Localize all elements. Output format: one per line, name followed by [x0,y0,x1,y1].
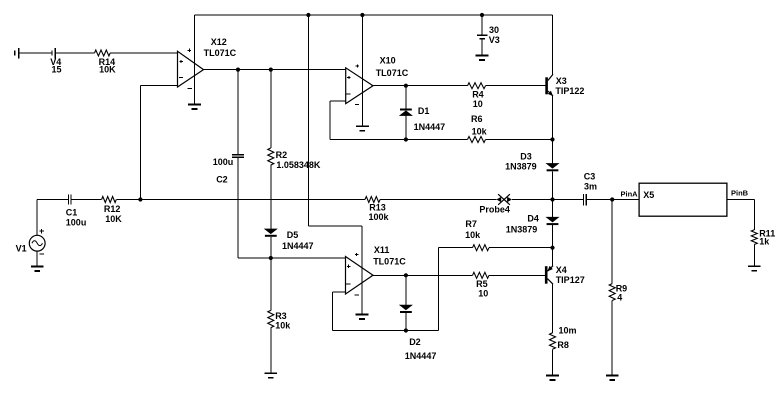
wire V1 top lead [36,200,38,236]
svg-text:R13: R13 [369,202,386,212]
probe Probe4 [496,194,512,205]
svg-text:1N4447: 1N4447 [282,241,314,251]
op-amp X12 [178,49,204,89]
svg-text:100k: 100k [369,212,390,222]
ground X10 [356,126,369,131]
wire D4 to R7 node [552,225,554,266]
resistor R12 [102,197,117,203]
wire C2 lower lead [237,158,239,258]
wire D2 top lead [405,275,407,305]
svg-text:V3: V3 [489,35,500,45]
wire PinA to X5 [612,199,639,201]
svg-text:D2: D2 [409,337,421,347]
svg-text:TL071C: TL071C [204,48,237,58]
ground X11 [356,315,369,320]
wire output node to C3 [553,199,583,201]
wire X12 output [204,69,346,71]
svg-text:4: 4 [617,293,622,303]
node PinA [610,197,614,201]
wire X11 feedback left [332,292,334,331]
wire D5 to node [270,237,272,258]
svg-text:1.058348K: 1.058348K [276,160,321,170]
node R2 top [269,68,273,72]
svg-text:10K: 10K [99,65,116,75]
ground R9 [606,376,619,381]
source V1 [29,229,45,254]
node D5 R3 [269,256,273,260]
wire X11 -in [333,291,346,293]
wire R14 to X12 +in [110,52,177,54]
ground X12 [188,105,201,110]
wire X3 collector [552,15,554,75]
ground R11 [748,266,761,271]
diode D5 [265,229,277,237]
wire X3 emitter [552,96,554,164]
wire V4 cells [19,52,52,54]
svg-text:30: 30 [489,25,499,35]
svg-text:X12: X12 [211,37,227,47]
battery V4 [15,48,56,59]
svg-text:R6: R6 [471,114,483,124]
node feedback tap [138,197,142,201]
resistor R2 [268,148,274,165]
wire C3 to PinA node [587,199,612,201]
wire X10 feedback bottom [330,139,468,141]
wire PinB [727,199,754,201]
wire X11 V+ lead [361,226,363,315]
node top rail C [480,13,484,17]
svg-text:1N4447: 1N4447 [405,351,437,361]
wire X10 out [372,85,468,87]
svg-text:15: 15 [52,65,62,75]
svg-text:R5: R5 [476,279,488,289]
svg-text:TIP122: TIP122 [555,86,584,96]
node X3 emitter R6 [550,137,554,141]
wire X10 V+ lead [361,15,363,126]
svg-text:X11: X11 [374,245,390,255]
wire X10 -in [330,100,346,102]
svg-text:100u: 100u [66,217,87,227]
svg-text:D4: D4 [527,213,539,223]
resistor R5 [473,272,490,278]
wire PinB down [753,200,755,230]
wire X11 feedback bottom [333,330,439,332]
resistor R13 [365,197,380,203]
svg-text:10m: 10m [559,326,577,336]
wire D1 top lead [405,86,407,109]
svg-text:10k: 10k [465,230,481,240]
wire V1 bottom lead [36,251,38,266]
resistor R9 [609,284,615,301]
svg-text:Probe4: Probe4 [479,204,510,214]
svg-text:X3: X3 [556,76,567,86]
resistor R14 [95,50,111,56]
op-amp X10 [346,64,373,104]
svg-text:X5: X5 [643,190,654,200]
ground R8 [546,376,559,381]
svg-text:10k: 10k [472,127,488,137]
wire V+ feed vertical [307,15,309,226]
svg-text:X4: X4 [556,265,567,275]
svg-text:10k: 10k [275,321,291,331]
svg-text:R12: R12 [104,204,121,214]
wire V+ feed jog [308,225,362,227]
resistor R7 [473,245,490,251]
svg-text:R8: R8 [557,340,569,350]
resistor R3 [268,310,274,327]
node D1 anode [404,137,408,141]
wire R8 to ground [552,349,554,375]
resistor R11 [751,230,757,245]
ground V1 [31,266,44,271]
svg-text:X10: X10 [380,55,396,65]
node top rail A [306,13,310,17]
svg-text:C3: C3 [584,172,596,182]
wire R7 to D4 node [489,247,553,249]
subcircuit X5 [639,183,727,216]
wire R3 to ground [270,328,272,374]
svg-text:PinA: PinA [621,189,639,198]
wire R5 to X4 base [489,274,545,276]
diode D4 [547,217,559,225]
wire R13 to probe [380,199,497,201]
capacitor C2 [232,155,244,157]
svg-text:PinB: PinB [731,189,749,198]
wire D3 to output node [552,171,554,217]
wire X4 collector down [552,284,554,333]
wire R2 to D5 [270,165,272,229]
wire V4 to R14 [55,52,94,54]
wire C2 upper lead [237,70,239,155]
wire probe to output node [512,199,553,201]
node top rail B [360,13,364,17]
node D1 cathode top [404,84,408,88]
svg-text:TL071C: TL071C [373,257,406,267]
node D2 cathode [404,328,408,332]
wire X11 out [372,274,473,276]
capacitor C1 [68,194,71,204]
wire X11 +in [238,257,346,259]
wire D2 bottom lead [405,313,407,331]
wire C1 to R12 [72,199,102,201]
resistor R6 [468,137,486,143]
node C2 top [236,68,240,72]
svg-text:R7: R7 [465,219,477,229]
svg-text:TIP127: TIP127 [556,275,585,285]
svg-text:10: 10 [473,99,483,109]
svg-text:D5: D5 [287,230,299,240]
wire top supply rail [195,14,553,16]
wire feedback right vertical [438,248,440,331]
svg-text:C1: C1 [66,208,78,218]
svg-text:D1: D1 [418,106,430,116]
wire R11 to ground [753,245,755,267]
wire R9 to ground [611,301,613,376]
wire R3 top lead [270,258,272,310]
svg-text:1N3879: 1N3879 [505,161,537,171]
wire R2 top lead [270,70,272,148]
wire R9 top lead [611,200,613,284]
wire R4 to X3 base [486,85,546,87]
capacitor C3 [583,194,586,205]
wire R7 line [439,247,473,249]
svg-text:1N3879: 1N3879 [506,225,538,235]
ground R3 [264,373,277,378]
node output [550,197,554,201]
resistor R8 [550,333,556,350]
svg-text:D3: D3 [520,152,532,162]
wire X12 -in [140,84,177,86]
wire D1 bottom lead [405,116,407,140]
svg-text:TL071C: TL071C [376,68,409,78]
svg-text:1k: 1k [759,237,770,247]
ground V3 [476,56,489,61]
transistor X4 [545,266,553,285]
diode D2 [400,305,412,313]
svg-text:1N4447: 1N4447 [414,122,446,132]
svg-text:R2: R2 [276,150,288,160]
transistor X3 [545,74,553,96]
wire R6 to emitter node [486,139,553,141]
wire X12 V+ lead [194,15,196,105]
svg-text:3m: 3m [584,181,597,191]
op-amp X11 [346,253,374,295]
svg-text:C2: C2 [216,175,228,185]
svg-text:100u: 100u [213,157,234,167]
node D2 anode [404,273,408,277]
resistor R4 [468,83,486,89]
wire X12 -in vertical [139,85,141,199]
diode D1 [400,109,412,116]
svg-text:V1: V1 [16,244,27,254]
wire mid rail left [37,199,68,201]
node D4 R7 [550,246,554,250]
svg-text:10: 10 [478,289,488,299]
battery V3 [477,15,488,56]
svg-text:10K: 10K [105,214,122,224]
wire X10 feedback left [329,101,331,140]
wire R12 to R13 [116,199,365,201]
diode D3 [547,164,559,172]
